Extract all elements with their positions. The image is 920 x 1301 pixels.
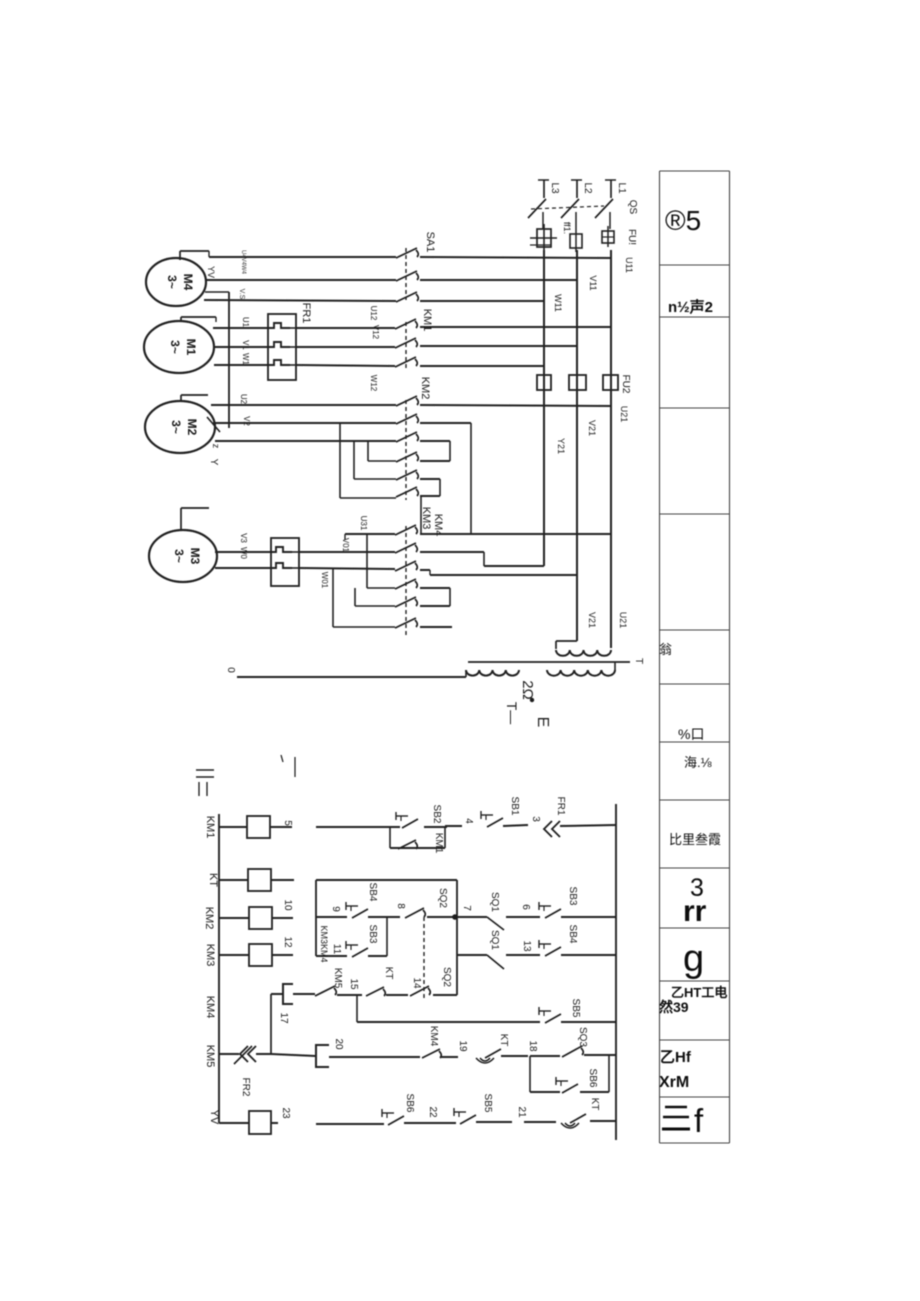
svg-text:13: 13 <box>521 940 532 952</box>
svg-text:KT: KT <box>383 967 394 980</box>
svg-text:19: 19 <box>457 1040 468 1052</box>
svg-text:U2: U2 <box>239 394 248 405</box>
svg-text:乙Hf: 乙Hf <box>660 1049 692 1066</box>
svg-text:KM3: KM3 <box>204 944 216 967</box>
svg-text:FU2: FU2 <box>620 375 631 394</box>
svg-text:V11: V11 <box>588 275 598 290</box>
svg-text:15: 15 <box>348 978 359 990</box>
svg-text:L2: L2 <box>582 182 593 194</box>
svg-text:L3: L3 <box>549 182 560 194</box>
svg-text:XrM: XrM <box>659 1074 689 1091</box>
svg-text:U31: U31 <box>359 516 368 531</box>
svg-text:KM3: KM3 <box>420 507 432 530</box>
svg-text:然39: 然39 <box>659 999 689 1015</box>
svg-text:ff1.: ff1. <box>562 222 572 234</box>
svg-text:SB4: SB4 <box>567 925 578 944</box>
svg-text:U21: U21 <box>618 612 628 629</box>
svg-text:YV: YV <box>206 266 216 278</box>
svg-text:KM2: KM2 <box>419 377 431 400</box>
svg-text:V2: V2 <box>242 416 251 426</box>
svg-text:M3: M3 <box>188 548 202 565</box>
svg-text:U1: U1 <box>241 317 250 328</box>
svg-text:V21: V21 <box>587 420 597 436</box>
svg-text:海.⅛: 海.⅛ <box>684 755 712 770</box>
svg-text:U4V4W4: U4V4W4 <box>240 250 246 275</box>
svg-text:KT: KT <box>498 1034 509 1047</box>
svg-text:SB1: SB1 <box>509 797 520 816</box>
svg-text:KM5: KM5 <box>204 1045 216 1068</box>
svg-text:FR1: FR1 <box>300 303 312 324</box>
svg-text:KT: KT <box>207 873 219 887</box>
svg-text:7: 7 <box>461 905 472 911</box>
svg-text:SQ2: SQ2 <box>437 888 448 908</box>
svg-text:KM2: KM2 <box>203 907 215 930</box>
svg-text:KM1: KM1 <box>433 833 444 854</box>
svg-text:KM4: KM4 <box>432 514 444 537</box>
svg-text:E: E <box>534 717 551 728</box>
svg-text:SB2: SB2 <box>431 805 442 824</box>
svg-text:4: 4 <box>463 818 474 824</box>
svg-text:SQ1: SQ1 <box>489 930 500 950</box>
svg-text:KM1: KM1 <box>421 309 433 332</box>
svg-text:22: 22 <box>427 1106 438 1118</box>
svg-text:3~: 3~ <box>172 549 186 563</box>
svg-text:3~: 3~ <box>168 340 182 354</box>
svg-text:W01: W01 <box>320 572 329 589</box>
svg-text:U21: U21 <box>619 406 629 423</box>
svg-text:20: 20 <box>333 1038 344 1050</box>
svg-text:6: 6 <box>520 904 531 910</box>
svg-text:Y: Y <box>208 459 219 466</box>
svg-text:23: 23 <box>280 1107 291 1119</box>
svg-text:SQ1: SQ1 <box>489 892 500 912</box>
svg-text:W12: W12 <box>369 375 378 392</box>
svg-text:n½声2: n½声2 <box>668 298 713 316</box>
svg-text:SB6: SB6 <box>404 1094 415 1113</box>
svg-text:U11: U11 <box>624 257 634 273</box>
svg-text:SB5: SB5 <box>482 1094 493 1113</box>
svg-text:T: T <box>633 658 644 664</box>
svg-text:SB3: SB3 <box>567 887 578 906</box>
svg-text:KT: KT <box>589 1098 600 1111</box>
svg-text:21: 21 <box>516 1106 527 1118</box>
svg-text:KM5: KM5 <box>332 968 343 989</box>
svg-text:SA1: SA1 <box>424 232 436 253</box>
svg-text:M4: M4 <box>181 274 195 291</box>
svg-text:V01: V01 <box>341 538 350 553</box>
svg-text:2Ω: 2Ω <box>519 680 536 700</box>
svg-text:SQ2: SQ2 <box>441 967 452 987</box>
svg-text:11: 11 <box>331 944 342 955</box>
svg-text:L1: L1 <box>616 182 627 194</box>
svg-text:M1: M1 <box>184 339 198 356</box>
svg-text:YV: YV <box>208 1110 220 1125</box>
svg-text:乙HT工电: 乙HT工电 <box>671 985 727 1000</box>
svg-text:V.S: V.S <box>238 289 245 300</box>
svg-text:KM4: KM4 <box>428 1026 439 1047</box>
svg-text:翁: 翁 <box>659 642 672 657</box>
svg-text:FR1: FR1 <box>555 797 566 816</box>
svg-text:SB4: SB4 <box>367 883 378 902</box>
svg-text:%口: %口 <box>678 726 704 742</box>
svg-text:SB3: SB3 <box>367 925 378 944</box>
svg-text:T—: T— <box>504 702 520 725</box>
svg-text:FU!: FU! <box>626 229 637 245</box>
svg-text:rr: rr <box>683 895 707 928</box>
svg-text:KM4: KM4 <box>204 996 216 1019</box>
svg-text:9: 9 <box>330 906 341 912</box>
svg-text:18: 18 <box>527 1040 538 1052</box>
svg-text:W1: W1 <box>241 353 250 366</box>
svg-text:SB5: SB5 <box>570 999 581 1018</box>
svg-text:V3: V3 <box>239 533 248 543</box>
svg-text:3: 3 <box>530 816 541 822</box>
svg-text:比里叁霞: 比里叁霞 <box>669 832 721 847</box>
svg-text:®5: ®5 <box>665 205 701 236</box>
svg-text:SQ3: SQ3 <box>577 1027 588 1047</box>
svg-text:10: 10 <box>282 899 293 911</box>
svg-text:14: 14 <box>411 977 422 989</box>
svg-text:QS: QS <box>627 200 638 215</box>
svg-text:Y21: Y21 <box>556 438 566 454</box>
svg-text:KM3KM4: KM3KM4 <box>319 925 329 962</box>
svg-text:V21: V21 <box>587 612 597 628</box>
svg-text:FR2: FR2 <box>240 1078 251 1097</box>
svg-text:5: 5 <box>282 820 293 826</box>
svg-text:3~: 3~ <box>169 420 183 434</box>
svg-text:SB6: SB6 <box>587 1069 598 1088</box>
svg-text:M2: M2 <box>185 419 199 436</box>
svg-text:KM1: KM1 <box>204 816 216 839</box>
svg-text:U12: U12 <box>369 306 378 321</box>
svg-text:V1: V1 <box>241 340 250 350</box>
svg-text:f: f <box>694 1102 704 1139</box>
svg-text:0: 0 <box>225 667 236 673</box>
svg-text:17: 17 <box>278 1012 289 1024</box>
svg-text:8: 8 <box>395 903 406 909</box>
svg-text:W11: W11 <box>553 294 563 312</box>
svg-text:12: 12 <box>282 936 293 948</box>
svg-text:g: g <box>683 938 704 980</box>
svg-text:3~: 3~ <box>165 275 179 289</box>
svg-text:W0: W0 <box>239 547 248 560</box>
svg-text:z: z <box>211 444 221 449</box>
